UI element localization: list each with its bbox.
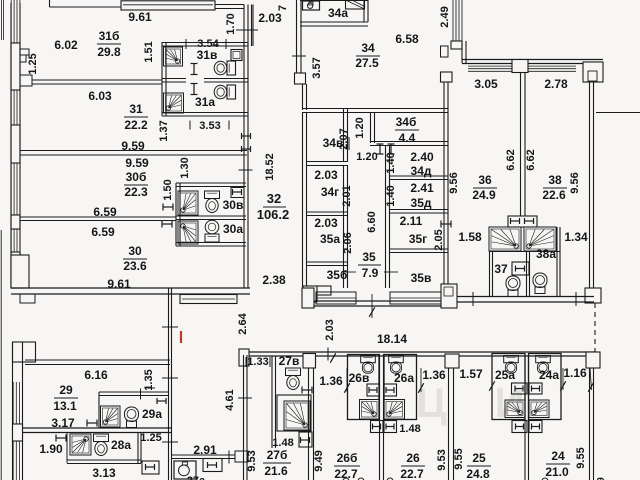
svg-text:29: 29	[59, 383, 73, 397]
svg-text:1.33: 1.33	[247, 356, 268, 368]
svg-text:9.56: 9.56	[448, 172, 460, 193]
svg-text:35б: 35б	[327, 268, 348, 282]
svg-text:1.57: 1.57	[459, 367, 483, 381]
svg-text:31в: 31в	[197, 48, 218, 62]
svg-text:2.03: 2.03	[314, 216, 338, 230]
svg-text:32: 32	[267, 191, 281, 206]
svg-text:22.7: 22.7	[400, 467, 424, 480]
svg-text:1.34: 1.34	[564, 230, 588, 244]
svg-text:3.13: 3.13	[92, 466, 116, 480]
svg-text:38а: 38а	[536, 247, 556, 261]
svg-text:22.6: 22.6	[542, 188, 566, 202]
svg-text:2.49: 2.49	[439, 6, 451, 27]
svg-text:13.1: 13.1	[53, 399, 77, 413]
svg-text:2.38: 2.38	[262, 273, 286, 287]
svg-text:1.40: 1.40	[385, 185, 397, 206]
svg-text:35д: 35д	[411, 196, 432, 210]
svg-text:1.51: 1.51	[143, 41, 155, 62]
svg-text:9.59: 9.59	[121, 139, 145, 153]
svg-text:2.78: 2.78	[544, 77, 568, 91]
svg-text:27в: 27в	[279, 354, 300, 368]
svg-text:26: 26	[406, 451, 420, 465]
svg-text:25а: 25а	[495, 368, 515, 382]
svg-text:3.53: 3.53	[199, 120, 220, 132]
svg-text:7.9: 7.9	[362, 266, 379, 280]
svg-text:3.57: 3.57	[311, 57, 323, 78]
svg-text:9.55: 9.55	[575, 447, 587, 468]
svg-text:6.59: 6.59	[91, 225, 115, 239]
svg-text:26в: 26в	[349, 371, 370, 385]
svg-text:2.06: 2.06	[342, 232, 354, 253]
svg-text:2.91: 2.91	[193, 443, 217, 457]
svg-text:2.07: 2.07	[338, 128, 350, 149]
svg-text:29.8: 29.8	[97, 45, 121, 59]
svg-text:36: 36	[478, 173, 492, 187]
svg-text:25: 25	[472, 451, 486, 465]
svg-text:2.03: 2.03	[324, 319, 336, 340]
svg-text:6.60: 6.60	[366, 211, 378, 232]
svg-text:24а: 24а	[539, 368, 559, 382]
svg-text:27а: 27а	[187, 475, 206, 480]
svg-text:1.35: 1.35	[143, 369, 155, 390]
svg-text:9.49: 9.49	[313, 450, 325, 471]
svg-text:26б: 26б	[337, 451, 358, 465]
svg-text:34г: 34г	[321, 185, 339, 199]
svg-text:1.25: 1.25	[27, 53, 39, 74]
svg-text:34а: 34а	[328, 6, 348, 20]
svg-text:35в: 35в	[411, 271, 432, 285]
svg-text:18.52: 18.52	[264, 153, 276, 181]
svg-text:9.61: 9.61	[107, 277, 131, 291]
svg-text:29а: 29а	[142, 407, 162, 421]
svg-text:6.59: 6.59	[93, 205, 117, 219]
svg-text:2.41: 2.41	[410, 181, 434, 195]
svg-text:38: 38	[548, 173, 562, 187]
svg-text:1.36: 1.36	[319, 374, 343, 388]
svg-text:2.05: 2.05	[433, 229, 445, 250]
svg-text:27б: 27б	[267, 448, 288, 462]
svg-text:35г: 35г	[409, 232, 427, 246]
svg-text:34б: 34б	[396, 115, 417, 129]
svg-text:1.25: 1.25	[140, 432, 161, 444]
svg-text:26а: 26а	[394, 371, 414, 385]
svg-text:1.58: 1.58	[458, 230, 482, 244]
svg-text:24.9: 24.9	[472, 188, 496, 202]
svg-text:9.61: 9.61	[128, 10, 152, 24]
svg-text:1.36: 1.36	[422, 368, 446, 382]
svg-text:9.59: 9.59	[125, 156, 149, 170]
svg-text:9.56: 9.56	[569, 172, 581, 193]
svg-text:34д: 34д	[411, 164, 432, 178]
svg-text:9.55: 9.55	[453, 448, 465, 469]
svg-text:6.03: 6.03	[88, 89, 112, 103]
svg-text:35: 35	[362, 250, 376, 264]
svg-text:22.3: 22.3	[124, 185, 148, 199]
svg-text:34: 34	[361, 41, 375, 55]
svg-text:30б: 30б	[126, 170, 147, 184]
svg-text:1.40: 1.40	[385, 152, 397, 173]
svg-text:30: 30	[128, 244, 142, 258]
svg-text:1.90: 1.90	[39, 442, 63, 456]
svg-text:24: 24	[551, 449, 565, 463]
svg-text:106.2: 106.2	[257, 207, 290, 222]
svg-text:23.6: 23.6	[123, 259, 147, 273]
svg-text:4.61: 4.61	[224, 389, 236, 410]
svg-text:27.5: 27.5	[355, 56, 379, 70]
svg-text:1.16: 1.16	[563, 366, 587, 380]
svg-text:31б: 31б	[99, 29, 120, 43]
svg-text:9.53: 9.53	[436, 449, 448, 470]
svg-text:35а: 35а	[320, 232, 340, 246]
svg-text:6.58: 6.58	[395, 32, 419, 46]
svg-text:1.37: 1.37	[158, 120, 170, 141]
svg-text:22.2: 22.2	[124, 118, 148, 132]
svg-text:2.03: 2.03	[314, 168, 338, 182]
svg-text:2.03: 2.03	[258, 11, 282, 25]
svg-text:2.11: 2.11	[400, 214, 423, 228]
svg-text:1.20: 1.20	[354, 117, 366, 138]
svg-text:3.05: 3.05	[474, 77, 498, 91]
svg-text:37: 37	[494, 262, 508, 276]
svg-text:6.16: 6.16	[84, 368, 108, 382]
svg-text:21.0: 21.0	[545, 465, 569, 479]
svg-text:6.62: 6.62	[525, 149, 537, 170]
svg-text:2.64: 2.64	[237, 312, 249, 334]
svg-text:6.02: 6.02	[54, 38, 78, 52]
svg-text:1.70: 1.70	[225, 13, 237, 34]
svg-text:21.6: 21.6	[264, 464, 288, 478]
svg-text:1.48: 1.48	[399, 423, 420, 435]
svg-text:30в: 30в	[223, 198, 244, 212]
svg-text:2.40: 2.40	[410, 150, 434, 164]
svg-text:1.50: 1.50	[162, 179, 174, 200]
svg-text:1.48: 1.48	[272, 437, 293, 449]
svg-text:30а: 30а	[223, 222, 243, 236]
svg-text:7: 7	[277, 5, 289, 11]
svg-text:4.4: 4.4	[399, 131, 416, 145]
svg-text:31: 31	[129, 102, 143, 116]
svg-text:31а: 31а	[195, 95, 215, 109]
svg-text:18.14: 18.14	[377, 332, 407, 346]
svg-text:28а: 28а	[111, 438, 131, 452]
svg-text:6.62: 6.62	[505, 149, 517, 170]
svg-text:24.8: 24.8	[466, 467, 490, 480]
svg-text:2.01: 2.01	[341, 185, 353, 206]
svg-text:1.30: 1.30	[179, 157, 191, 178]
svg-text:1.20: 1.20	[356, 151, 377, 163]
svg-text:9.53: 9.53	[246, 450, 258, 471]
